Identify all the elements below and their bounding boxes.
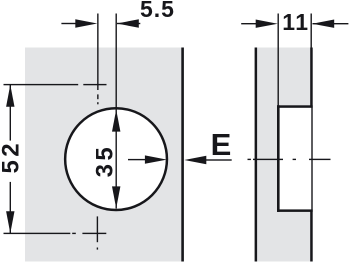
side view horizontal centerline: dash: [253, 159, 283, 160]
E arrow (points left to door edge): [204, 159, 232, 160]
52 down arrow: [6, 211, 14, 233]
extension line top for 52 (y=84.6): [4, 84, 79, 85]
centerline dot below bottom cross: [97, 248, 98, 250]
cup drilling notch (white cutout): [278, 107, 311, 211]
side view horizontal centerline: dash: [309, 159, 331, 160]
svg-text:5.5: 5.5: [140, 0, 175, 22]
extension line left for 11 (x=278.2): [278, 14, 279, 107]
extension line for 5.5 (screw hole centerline, x=97.8): [97, 14, 98, 91]
dimension line 11 left arrow (points right): [241, 23, 256, 24]
35 up arrow (inside cup): [112, 110, 120, 132]
side view right edge line: [310, 48, 313, 262]
door cross-section (side view) gray body: [255, 48, 312, 262]
svg-text:52: 52: [0, 140, 25, 174]
dimension line 11 right arrow (points left): [313, 23, 349, 24]
side view horizontal centerline: dot: [248, 159, 251, 160]
centerline dash below (x=97.8): [97, 94, 98, 99]
52 up arrow: [6, 85, 14, 107]
svg-text:11: 11: [282, 9, 309, 35]
hinge cup circle Ø35: [65, 108, 167, 210]
door panel front edge line: [181, 48, 184, 262]
dimension line 5.5 left arrow (points right): [61, 23, 76, 24]
notch top edge line: [277, 105, 313, 108]
dimension line 52 lower segment (x=10.3): [10, 182, 11, 233]
centerline dot below (x=97.8): [97, 102, 98, 104]
bottom screw hole cross arm (y=233.4): [82, 233, 106, 234]
cup radius arrow (points right to cup edge): [128, 159, 146, 160]
dimension line 52 upper segment (x=10.3): [10, 85, 11, 141]
top screw hole cross arm (y=84.6): [83, 84, 106, 85]
35 down arrow (inside cup): [112, 186, 120, 208]
extension line right for 11 (x=311.2): [311, 14, 312, 48]
notch bottom edge line: [277, 209, 313, 212]
dimension line 5.5 right arrow (points left): [117, 23, 140, 24]
svg-text:E: E: [211, 127, 232, 162]
svg-text:35: 35: [91, 144, 118, 178]
extension line for 5.5 / dimension line 35 (x=116.2): [116, 14, 117, 209]
extension line bottom for 52 (y=233.4): [4, 233, 71, 234]
bottom screw hole cross vertical (x=97.4): [97, 216, 98, 242]
side view horizontal centerline: dot: [293, 159, 296, 160]
notch left edge line: [277, 105, 280, 212]
door panel (front view) gray body: [25, 48, 182, 262]
side view left edge line: [255, 48, 258, 262]
centerline dot on bottom extension: [72, 233, 76, 234]
